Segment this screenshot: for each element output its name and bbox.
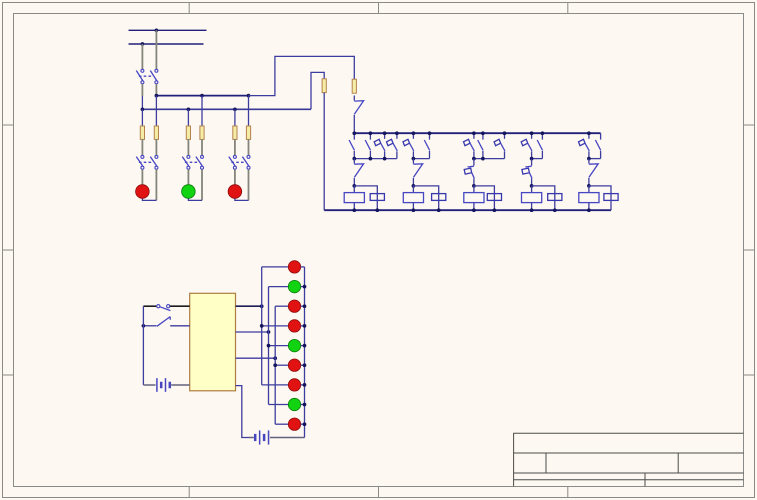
wire: branch 2 lamp bottom link — [188, 198, 202, 200]
PLC U1 — [190, 293, 236, 391]
coil KA1 — [353, 186, 355, 193]
node: rail junction at contact K8 — [481, 131, 485, 135]
node: rail junction at contact K5 — [412, 131, 416, 135]
node: bus B at branch 2 — [187, 107, 191, 111]
battery BT1 — [143, 384, 155, 386]
contact K4 (NC) — [396, 133, 398, 139]
breaker QF2 gang link — [139, 161, 153, 163]
wire: rung 3 contact output link — [474, 158, 505, 160]
wire: phase bus L2 — [129, 43, 204, 45]
node: rail junction at contact K3 — [383, 131, 387, 135]
node: rung 1 link junction — [352, 157, 356, 161]
wire: L2 drop to breaker QF1 — [141, 44, 143, 69]
wire: branch 3 breaker to lamp — [234, 169, 236, 185]
wire: red group bus — [261, 267, 263, 385]
fuse FU5 — [233, 126, 237, 139]
node: L2 tap junction — [141, 42, 145, 46]
wire: branch 2 right drop — [201, 96, 203, 126]
node: bottom rail at coil KA1 — [352, 208, 356, 212]
breaker QF4 gang link — [231, 161, 245, 163]
breaker QF2 pole 2 — [155, 155, 158, 158]
contact K10 (NC) — [531, 133, 533, 139]
node: group bus junction lamp HL8 — [267, 344, 271, 348]
node: rung 4 link junction — [530, 157, 534, 161]
node: red group B bus tap — [273, 356, 277, 360]
node: bus A at branch 3 — [247, 94, 251, 98]
fuse FU3 — [186, 126, 190, 139]
node: rung 5 link junction — [587, 157, 591, 161]
lamp HL1 — [136, 185, 150, 199]
node: rail junction at contact K1 — [352, 131, 356, 135]
wire: branch 3 fuse to breaker left — [234, 139, 236, 155]
lamp HL12 — [288, 418, 300, 430]
wire: PLC output 3 — [236, 357, 276, 359]
fuse FU6 — [246, 126, 250, 139]
wire: lamp HL7 feed lead — [262, 325, 289, 327]
wire: lamp HL10 feed lead — [262, 384, 289, 386]
node: common bus junction lamp HL7 — [303, 324, 307, 328]
wire: neutral feed down to bottom rail — [323, 93, 325, 211]
node: rung 3 coil node — [472, 184, 476, 188]
lamp HL11 — [288, 398, 300, 410]
wire: bus B extension to neutral feed — [311, 72, 324, 109]
lamp HL7 — [288, 320, 300, 332]
fuse FU7 — [322, 79, 326, 93]
lamp HL8 — [288, 339, 300, 351]
wire: lamp HL5 feed lead — [269, 286, 289, 288]
node: rung 4 coil node — [530, 184, 534, 188]
wire: branch 3 lamp bottom link — [235, 198, 249, 200]
node: rail junction at contact K10 — [530, 131, 534, 135]
wire: lamp HL10 return lead — [301, 384, 305, 386]
wire: green group bus — [268, 287, 270, 405]
breaker QF1 pole 1 — [141, 69, 144, 72]
node: rail junction at contact K4 — [395, 131, 399, 135]
lamp HL4 — [288, 261, 300, 273]
node: rung 2 link junction — [412, 157, 416, 161]
node: bottom rail at indicator X3 — [493, 208, 497, 212]
lamp HL6 — [288, 300, 300, 312]
wire: QF1 pole1 to bus B — [141, 84, 143, 96]
switch QS3 — [412, 159, 414, 164]
wire: coil KA4 to bottom rail — [531, 203, 533, 211]
lamp HL2 — [182, 185, 196, 199]
wire: lamp HL4 return lead — [301, 266, 305, 268]
node: bus B at branch 3 — [233, 107, 237, 111]
wire: bottom rail — [324, 209, 611, 211]
wire: bus A extension to ladder feed — [249, 56, 355, 95]
node: rail junction at contact K2 — [369, 131, 373, 135]
indicator X4 — [548, 194, 562, 201]
node: rung 3 link junction — [481, 157, 485, 161]
coil KA2 — [412, 186, 414, 193]
wire: switch S1 to PLC U1 — [170, 305, 190, 307]
node: common bus junction lamp HL6 — [303, 304, 307, 308]
breaker QF2 pole 1 — [141, 155, 144, 158]
contact K6 (NO) — [429, 133, 431, 139]
wire: branch 3 right drop — [248, 96, 250, 126]
node: L1 tap junction — [155, 28, 159, 32]
wire: distribution bus A — [156, 95, 248, 97]
wire: branch 1 right drop — [155, 96, 157, 126]
node: common bus junction lamp HL8 — [303, 344, 307, 348]
node: bottom rail at coil KA5 — [587, 208, 591, 212]
wire: rung 1 node to aux branch — [354, 186, 377, 210]
node: common bus junction lamp HL9 — [303, 363, 307, 367]
wire: PLC output 2 — [236, 331, 269, 333]
breaker QF1 gang link — [139, 75, 153, 77]
wire: lamp HL8 feed lead — [269, 345, 289, 347]
wire: branch 2 fuse to breaker left — [187, 139, 189, 155]
wire: branch 1 lamp bottom link — [142, 198, 156, 200]
breaker QF1 pole 2 — [155, 69, 158, 72]
wire: coil KA5 to bottom rail — [588, 203, 590, 211]
wire: rung 2 node to aux branch — [413, 186, 438, 210]
wire: branch 3 fuse to breaker right — [248, 139, 250, 155]
wire: coil KA1 to bottom rail — [353, 203, 355, 211]
indicator X5 — [604, 194, 618, 201]
wire: phase bus L1 — [129, 29, 207, 31]
fuse FU8 — [352, 79, 356, 93]
wire: lamp HL8 return lead — [301, 345, 305, 347]
contact KM4 (NC overload) — [531, 159, 533, 166]
node: rung 1 link junction — [383, 157, 387, 161]
node: common bus junction lamp HL10 — [303, 383, 307, 387]
node: green group bus tap — [267, 330, 271, 334]
node: common bus junction lamp HL11 — [303, 403, 307, 407]
wire: rung 2 contact output link — [413, 158, 429, 160]
node: rung 5 coil node — [587, 184, 591, 188]
switch QS1 — [353, 96, 355, 101]
wire: PLC return to battery BT2 — [236, 386, 251, 438]
wire: branch 2 left drop — [187, 109, 189, 126]
node: rail junction at contact K7 — [472, 131, 476, 135]
node: bottom rail at indicator X4 — [553, 208, 557, 212]
node: red group bus tap — [260, 304, 264, 308]
node: common bus junction lamp HL12 — [303, 422, 307, 426]
wire: coil KA2 to bottom rail — [412, 203, 414, 211]
wire: branch 2 breaker return drop — [201, 169, 203, 200]
indicator X1 — [370, 194, 384, 201]
breaker QF4 pole 1 — [233, 155, 236, 158]
wire: PLC output 1 — [236, 305, 262, 307]
node: bus A at branch 1 — [155, 94, 159, 98]
node: bottom rail at indicator X1 — [375, 208, 379, 212]
node: group bus junction lamp HL9 — [273, 363, 277, 367]
contact K9 (NC) — [504, 133, 506, 139]
indicator X2 — [432, 194, 446, 201]
wire: lamp HL4 feed lead — [262, 266, 289, 268]
node: bottom rail at coil KA2 — [412, 208, 416, 212]
wire: branch 3 left drop — [234, 109, 236, 126]
contact KM3 (NC overload) — [473, 159, 475, 166]
node: bus B at branch 1 — [141, 107, 145, 111]
wire: branch 2 fuse to breaker right — [201, 139, 203, 155]
node: rail junction at contact K6 — [428, 131, 432, 135]
indicator X3 — [487, 194, 501, 201]
fuse FU4 — [200, 126, 204, 139]
wire: lamp HL12 feed lead — [275, 423, 288, 425]
wire: lamp HL12 return lead — [301, 423, 305, 425]
contact K11 (NO) — [541, 133, 543, 139]
lamp HL5 — [288, 280, 300, 292]
node: bottom rail at coil KA4 — [530, 208, 534, 212]
wire: lamp HL9 return lead — [301, 364, 305, 366]
wire: rung 5 node to aux branch — [589, 186, 611, 210]
contact K13 (NO) — [600, 133, 602, 139]
node: rung 2 coil node — [412, 184, 416, 188]
wire: lamp common bus — [304, 267, 306, 438]
node: rail junction at contact K12 — [587, 131, 591, 135]
contact K8 (NO) — [482, 133, 484, 139]
battery BT2 — [249, 437, 254, 439]
coil KA3 — [473, 186, 475, 193]
wire: rung 3 node to aux branch — [474, 186, 495, 210]
node: rung 3 link junction — [472, 157, 476, 161]
wire: lamp HL9 feed lead — [275, 364, 288, 366]
node: rung 1 coil node — [352, 184, 356, 188]
wire: distribution bus B — [142, 108, 311, 110]
wire: lamp HL11 return lead — [301, 404, 305, 406]
node: rail junction at contact K9 — [503, 131, 507, 135]
coil KA5 — [588, 186, 590, 193]
wire: branch 1 breaker return drop — [155, 169, 157, 200]
switch S2 — [157, 317, 170, 327]
wire: switch S2 to PLC U1 — [170, 325, 190, 327]
wire: L1 drop to breaker QF1 — [155, 30, 157, 69]
contact K1 (NO) — [353, 133, 355, 139]
breaker QF3 pole 1 — [187, 155, 190, 158]
wire: rung 4 node to aux branch — [532, 186, 555, 210]
node: bus A at branch 2 — [200, 94, 204, 98]
wire: branch 1 fuse to breaker right — [155, 139, 157, 155]
node: bottom rail at coil KA3 — [472, 208, 476, 212]
wire: branch 2 breaker to lamp — [187, 169, 189, 185]
wire: red group B bus — [274, 306, 276, 424]
contact K5 (NC) — [412, 133, 414, 139]
contact K3 (NC) — [384, 133, 386, 139]
switch QS2 — [353, 159, 355, 164]
wire: ladder top rail — [354, 132, 600, 134]
wire: lamp HL6 return lead — [301, 305, 305, 307]
contact K7 (NC) — [473, 133, 475, 139]
wire: branch 1 breaker to lamp — [141, 169, 143, 185]
node: group bus junction lamp HL7 — [260, 324, 264, 328]
breaker QF3 gang link — [185, 161, 199, 163]
wire: lamp HL11 feed lead — [269, 404, 289, 406]
wire: branch 1 fuse to breaker left — [141, 139, 143, 155]
lamp HL3 — [228, 185, 242, 199]
breaker QF4 pole 2 — [247, 155, 250, 158]
node: input bus junction — [142, 324, 146, 328]
contact K12 (NC) — [588, 133, 590, 139]
switch S1 — [157, 305, 160, 308]
lamp HL10 — [288, 379, 300, 391]
node: rail junction at contact K11 — [541, 131, 545, 135]
wire: coil KA3 to bottom rail — [473, 203, 475, 211]
coil KA4 — [531, 186, 533, 193]
switch QS6 — [588, 159, 590, 164]
wire: rung 1 contact output link — [354, 158, 397, 160]
wire: branch 3 breaker return drop — [248, 169, 250, 200]
wire: branch 1 left drop — [141, 109, 143, 126]
wire: switch S1 input lead — [143, 305, 156, 307]
wire: input supply drop — [142, 306, 144, 385]
lamp HL9 — [288, 359, 300, 371]
wire: rung 4 contact output link — [532, 158, 543, 160]
node: rung 1 link junction — [369, 157, 373, 161]
wire: lamp HL6 feed lead — [275, 305, 288, 307]
breaker QF3 pole 2 — [201, 155, 204, 158]
fuse FU1 — [140, 126, 144, 139]
wire: lamp HL7 return lead — [301, 325, 305, 327]
wire: rung 5 contact output link — [589, 158, 601, 160]
wire: switch S2 input lead — [143, 325, 156, 327]
node: bottom rail at indicator X2 — [437, 208, 441, 212]
wire: lamp HL5 return lead — [301, 286, 305, 288]
node: common bus junction lamp HL5 — [303, 285, 307, 289]
contact K2 (NO) — [369, 133, 371, 139]
wire: QF1 pole2 to bus A — [155, 84, 157, 96]
fuse FU2 — [154, 126, 158, 139]
